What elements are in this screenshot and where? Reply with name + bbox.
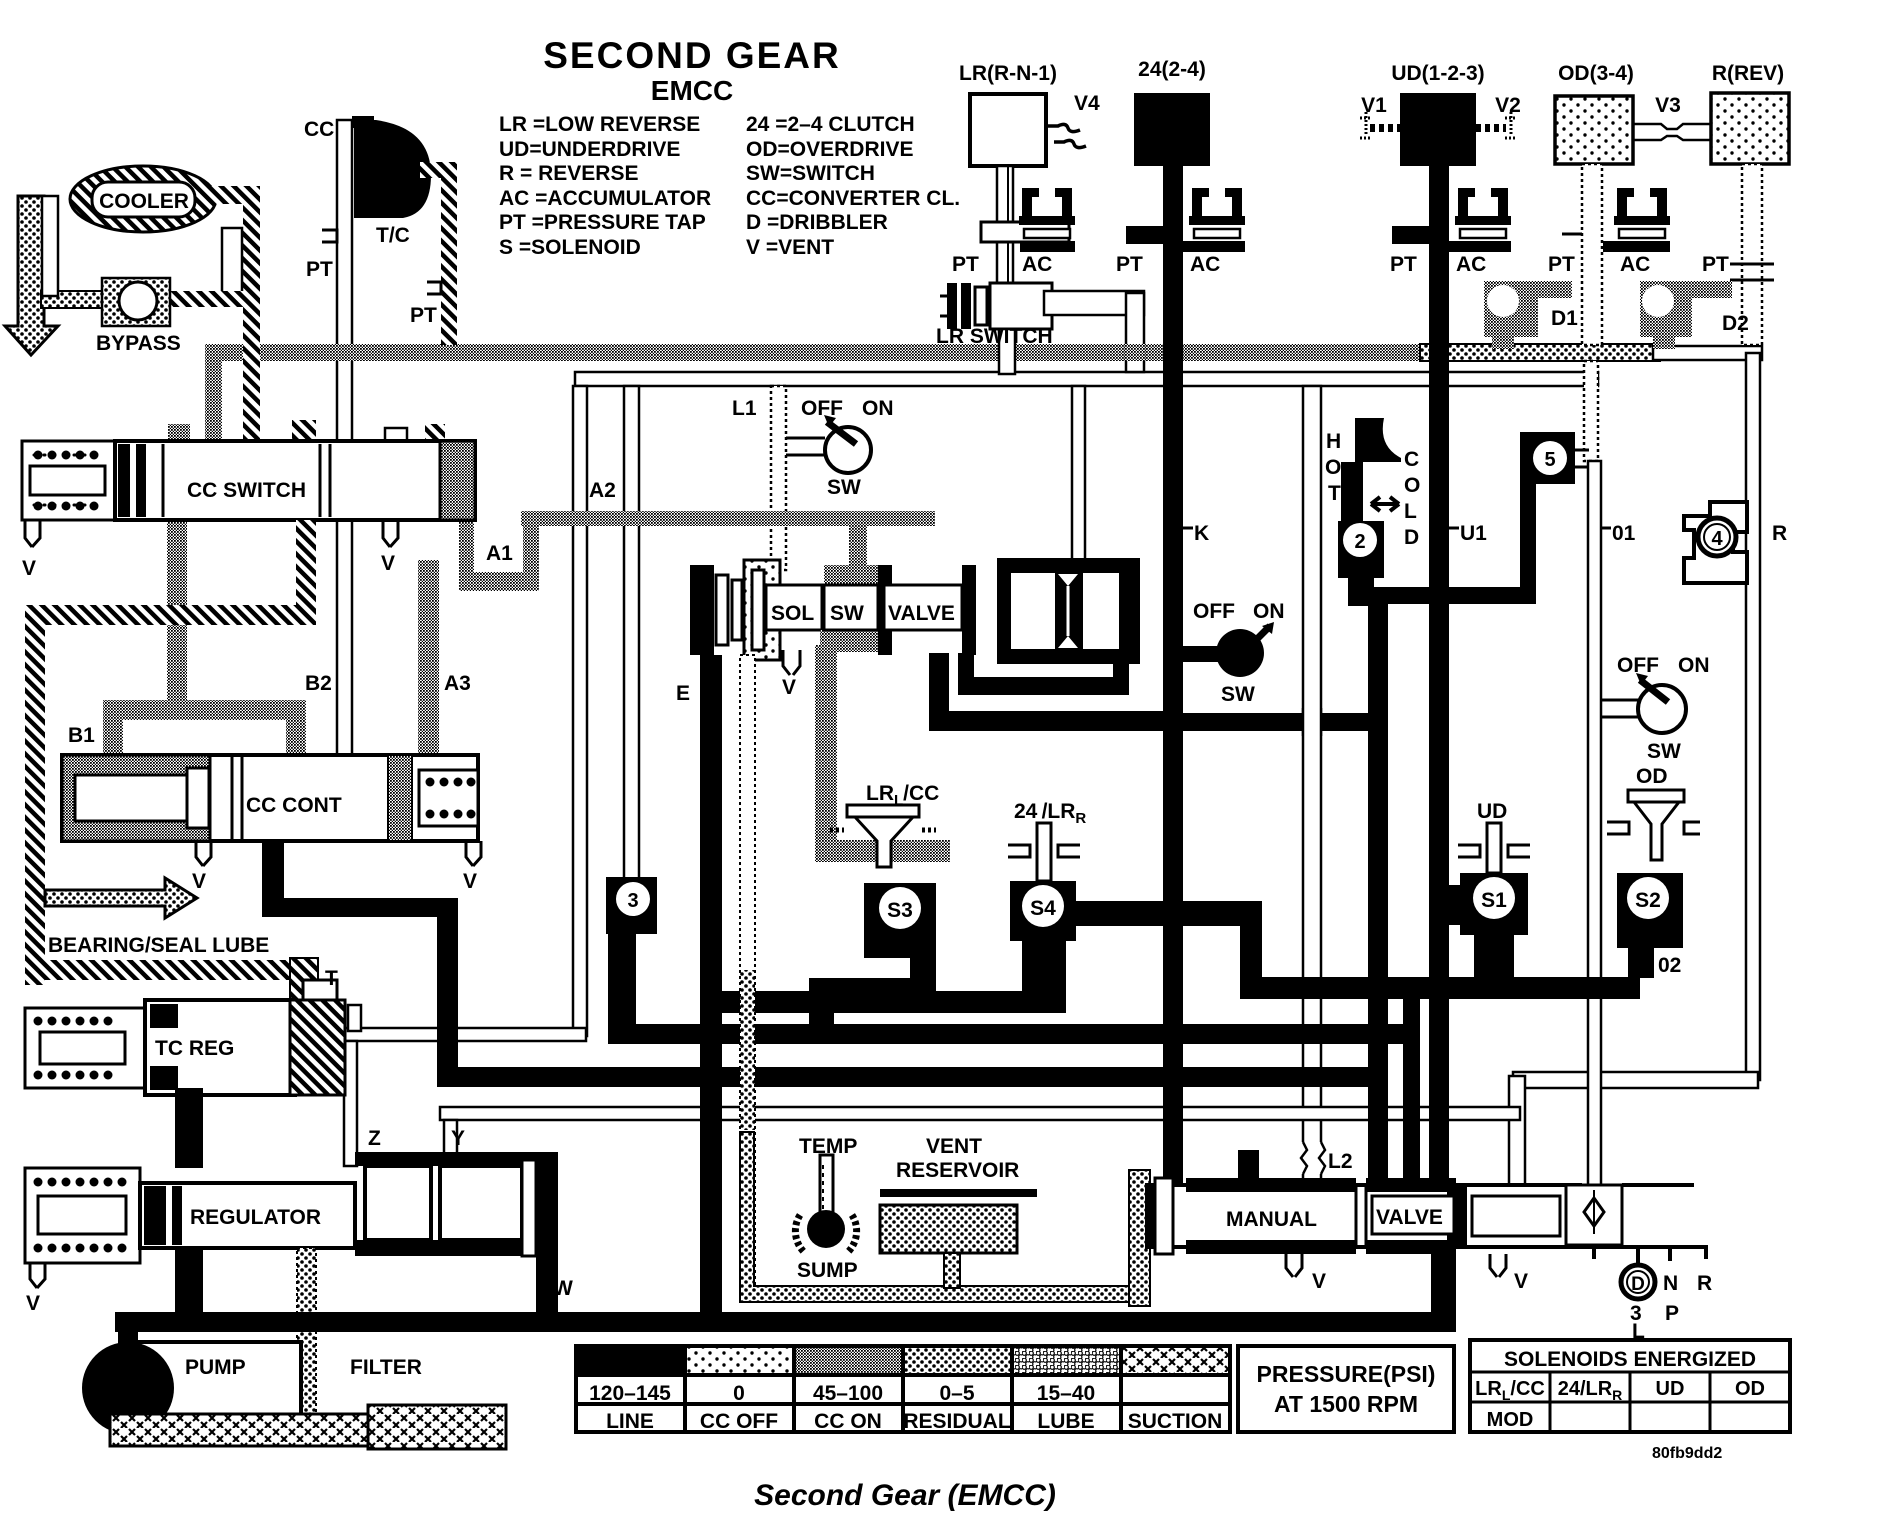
svg-text:R: R	[1697, 1272, 1712, 1295]
pressure tap tick (OD)	[1562, 233, 1582, 236]
vent V (CC SWITCH mid)	[383, 520, 398, 547]
accumulator UD(1-2-3)	[1400, 93, 1476, 166]
wire A3 gray vertical to CC CONT	[418, 560, 439, 756]
wire 02 return white channel vertical	[1509, 1076, 1525, 1185]
wire 01 white channel vertical	[1588, 461, 1601, 1185]
svg-text:PT =PRESSURE TAP: PT =PRESSURE TAP	[499, 211, 706, 234]
svg-text:D: D	[1631, 1274, 1645, 1295]
svg-text:MOD: MOD	[1487, 1409, 1534, 1431]
wire gray vertical CC SWITCH to B1	[167, 520, 187, 716]
CC channel top cap	[352, 116, 374, 128]
vent V (manual valve right)	[1490, 1254, 1506, 1277]
svg-text:OFF: OFF	[1193, 600, 1235, 623]
svg-text:CC=CONVERTER CL.: CC=CONVERTER CL.	[746, 187, 960, 210]
svg-text:V: V	[22, 557, 36, 580]
svg-text:LR =LOW REVERSE: LR =LOW REVERSE	[499, 113, 700, 136]
svg-text:Second Gear (EMCC): Second Gear (EMCC)	[754, 1479, 1056, 1512]
svg-text:R(REV): R(REV)	[1712, 62, 1784, 85]
wire K white channel vertical (right of VALVE)	[1072, 386, 1085, 564]
switch SW middle (on 24 line)	[1183, 600, 1285, 706]
wire A1 gray riser to A2	[523, 511, 539, 591]
svg-text:S =SOLENOID: S =SOLENOID	[499, 236, 641, 259]
valve REGULATOR spring box	[25, 1168, 140, 1263]
wire W down stub	[536, 1256, 558, 1314]
node circle 5	[1520, 432, 1589, 484]
svg-text:SUCTION: SUCTION	[1128, 1410, 1223, 1433]
vent V4 squiggle	[1046, 124, 1086, 147]
svg-text:PT: PT	[410, 304, 437, 327]
solenoid OD filter funnel	[1607, 790, 1700, 860]
lube arrow down (cooler return)	[5, 196, 58, 355]
svg-text:PT: PT	[306, 258, 333, 281]
wire B2 white channel vertical	[337, 520, 352, 756]
valve solenoid switch valve (SOL SW VALVE)	[690, 560, 976, 660]
svg-text:OD(3-4): OD(3-4)	[1558, 62, 1634, 85]
svg-text:CC SWITCH: CC SWITCH	[187, 479, 306, 502]
svg-text:80fb9dd2: 80fb9dd2	[1652, 1445, 1722, 1462]
svg-text:PT: PT	[952, 253, 979, 276]
svg-text:45–100: 45–100	[813, 1382, 883, 1405]
wire row B black	[608, 959, 636, 1044]
suction line crosshatch	[110, 1414, 370, 1446]
svg-text:CC OFF: CC OFF	[700, 1410, 778, 1433]
svg-text:S1: S1	[1481, 889, 1507, 912]
svg-text:V: V	[381, 552, 395, 575]
svg-text:W: W	[553, 1277, 573, 1300]
CC SWITCH top collar stubs	[168, 424, 190, 441]
svg-text:R: R	[1772, 522, 1787, 545]
pressure psi box	[1238, 1346, 1454, 1432]
svg-text:V: V	[782, 676, 796, 699]
accumulator LR(R-N-1)	[970, 94, 1046, 166]
table grid lines	[576, 1346, 1230, 1432]
wire hatched left wall vertical	[25, 605, 45, 985]
svg-text:LUBE: LUBE	[1037, 1410, 1094, 1433]
svg-text:O: O	[1325, 456, 1341, 479]
svg-text:LR SWITCH: LR SWITCH	[936, 325, 1053, 348]
svg-text:OD: OD	[1735, 1378, 1765, 1400]
svg-text:V4: V4	[1074, 92, 1100, 115]
pressure tap tick (CC)	[322, 230, 337, 242]
wire white channel x575 vertical	[573, 386, 587, 1036]
svg-text:B2: B2	[305, 672, 332, 695]
svg-text:5: 5	[1544, 449, 1555, 471]
svg-text:FILTER: FILTER	[350, 1356, 422, 1379]
wire R stem dotted channel	[1742, 164, 1762, 345]
tee connector T	[290, 958, 337, 1006]
valve CC SWITCH spring box	[22, 441, 115, 520]
svg-text:V: V	[1514, 1270, 1528, 1293]
svg-text:L2: L2	[1328, 1150, 1353, 1173]
solenoid S3 filter funnel	[830, 805, 936, 867]
svg-text:SW: SW	[830, 602, 864, 625]
wire row C black	[437, 917, 458, 1087]
wire S1/S2 bottom row black	[1257, 977, 1640, 999]
vent V (CC CONT right)	[466, 841, 481, 866]
wire hatched vertical cooler to CC SWITCH	[243, 186, 260, 442]
solenoid S2	[1617, 873, 1683, 978]
regulator right section	[355, 1152, 558, 1256]
valve REGULATOR body	[140, 1183, 355, 1248]
swatch LINE	[576, 1346, 685, 1375]
svg-text:VALVE: VALVE	[888, 602, 955, 625]
wire 24 main line vertical	[1163, 166, 1183, 1192]
svg-text:OD=OVERDRIVE: OD=OVERDRIVE	[746, 138, 913, 161]
svg-text:SOL: SOL	[771, 602, 814, 625]
svg-text:SW: SW	[1221, 683, 1255, 706]
wire R top white channel	[1653, 346, 1762, 360]
accumulator 24(2-4)	[1134, 93, 1210, 166]
wire OD stem dotted channel	[1582, 164, 1602, 345]
svg-text:R = REVERSE: R = REVERSE	[499, 162, 638, 185]
wire cooler right channel down	[222, 228, 242, 294]
wire thermal riser black	[1368, 604, 1388, 1185]
wire residual dotted vertical to sump	[740, 655, 755, 1300]
LR switch assembly	[940, 283, 1052, 329]
svg-text:UD=UNDERDRIVE: UD=UNDERDRIVE	[499, 138, 680, 161]
svg-text:LINE: LINE	[606, 1410, 654, 1433]
svg-text:A1: A1	[486, 542, 513, 565]
wire CC white channel from top	[337, 120, 352, 442]
wire L2 white channel vertical	[1303, 386, 1321, 1185]
vent V3 channel between OD and R	[1633, 124, 1711, 140]
thermal valve HOT/COLD	[1341, 418, 1401, 522]
wire LR switch to channel	[999, 329, 1015, 374]
valve CC regulator plug (right of SOL valve)	[997, 558, 1140, 664]
svg-text:AC: AC	[1620, 253, 1650, 276]
pump supply line black	[115, 1312, 1456, 1332]
wire dotted bypass line left	[41, 291, 136, 308]
wire UD main line vertical	[1429, 166, 1449, 1192]
valve CC CONT	[62, 755, 478, 841]
wire residual dotted vertical to circle 5	[1584, 361, 1598, 461]
wire white channel T-to-jog vertical	[348, 1005, 361, 1031]
wire v1403 black to manual valve	[1403, 977, 1420, 1185]
svg-text:AC =ACCUMULATOR: AC =ACCUMULATOR	[499, 187, 711, 210]
svg-text:N: N	[1663, 1272, 1678, 1295]
pump	[82, 1325, 301, 1434]
wire S3 output black	[910, 958, 936, 1002]
solenoids energized table	[1470, 1340, 1790, 1432]
svg-text:UD: UD	[1656, 1378, 1685, 1400]
manual valve right spool	[1472, 1196, 1560, 1236]
patch residual dotted over rows	[740, 970, 755, 1130]
wire B1 gray horizontal	[103, 700, 306, 720]
svg-text:PT: PT	[1702, 253, 1729, 276]
svg-text:D: D	[1404, 526, 1419, 549]
svg-text:VENT: VENT	[926, 1135, 982, 1158]
vent reservoir tank	[880, 1189, 1037, 1288]
wire dotted regulator to suction	[297, 1248, 316, 1418]
svg-text:V =VENT: V =VENT	[746, 236, 834, 259]
svg-text:K: K	[1194, 522, 1209, 545]
wire white channel below main line	[575, 372, 1598, 386]
accumulator cap flange (LR)	[981, 222, 1069, 242]
accumulator piston AC (LR)	[1019, 188, 1075, 252]
svg-text:SW: SW	[1647, 740, 1681, 763]
legend abbreviation text column 2	[746, 113, 960, 259]
svg-text:0–5: 0–5	[939, 1382, 974, 1405]
svg-text:PT: PT	[1390, 253, 1417, 276]
patch L2 white channel over black	[1303, 708, 1321, 736]
switch SW (01 line)	[1601, 654, 1710, 763]
wire hatched vertical T/C down to main line	[441, 162, 457, 345]
svg-text:CC CONT: CC CONT	[246, 794, 342, 817]
svg-text:V2: V2	[1495, 94, 1521, 117]
svg-text:V: V	[463, 870, 477, 893]
svg-text:S4: S4	[1030, 897, 1056, 920]
svg-text:V3: V3	[1655, 94, 1681, 117]
torque converter T/C black blob	[356, 120, 431, 218]
manual valve bottom comb with positions	[1456, 1247, 1706, 1269]
solenoid S4	[1010, 881, 1076, 1013]
wire LR switch output channel	[1044, 291, 1144, 315]
svg-text:SW: SW	[827, 476, 861, 499]
solenoid S1	[1460, 873, 1528, 979]
svg-text:TEMP: TEMP	[799, 1135, 857, 1158]
cooler oval	[70, 166, 216, 232]
wire A2 gray elbow down to SOL	[849, 519, 867, 590]
svg-text:OD: OD	[1636, 765, 1668, 788]
svg-text:U1: U1	[1460, 522, 1487, 545]
wire row A black	[722, 991, 1055, 1013]
vent V (manual valve left)	[1286, 1254, 1302, 1277]
svg-text:D =DRIBBLER: D =DRIBBLER	[746, 211, 888, 234]
wire black 24-line to thermal riser	[1183, 713, 1388, 731]
svg-text:ON: ON	[1253, 600, 1285, 623]
svg-text:V: V	[26, 1292, 40, 1315]
svg-text:UD: UD	[1477, 800, 1507, 823]
wire black U-line under plug valve	[958, 653, 1129, 695]
swatch RESIDUAL	[903, 1346, 1012, 1375]
svg-text:BYPASS: BYPASS	[96, 332, 181, 355]
svg-text:A2: A2	[589, 479, 616, 502]
svg-text:H: H	[1326, 430, 1341, 453]
wire S1 feed elbow black	[1449, 885, 1462, 925]
wire B1 gray elbows down to CC CONT	[103, 712, 123, 760]
pressure switch circle 4	[1684, 502, 1747, 583]
svg-text:02: 02	[1658, 954, 1681, 977]
wire A1 gray horizontal jog	[459, 572, 539, 591]
svg-text:0: 0	[733, 1382, 745, 1405]
wire gray vertical main line to CC SWITCH	[205, 357, 222, 445]
svg-text:Y: Y	[451, 1127, 465, 1150]
node circle 2	[1338, 521, 1384, 578]
patch L2 label gap	[1300, 1142, 1324, 1174]
svg-text:120–145: 120–145	[589, 1382, 671, 1405]
svg-text:LRL/CC: LRL/CC	[866, 782, 939, 809]
svg-text:ON: ON	[1678, 654, 1710, 677]
svg-text:24 =2–4 CLUTCH: 24 =2–4 CLUTCH	[746, 113, 915, 136]
svg-text:01: 01	[1612, 522, 1636, 545]
svg-text:TC REG: TC REG	[155, 1037, 234, 1060]
svg-text:24(2-4): 24(2-4)	[1138, 58, 1206, 81]
svg-text:L1: L1	[732, 397, 757, 420]
wire main CC-ON line horizontal	[205, 344, 1420, 361]
svg-text:MANUAL: MANUAL	[1226, 1208, 1317, 1231]
svg-text:RESERVOIR: RESERVOIR	[896, 1159, 1019, 1182]
svg-text:BEARING/SEAL LUBE: BEARING/SEAL LUBE	[48, 934, 269, 957]
vent V (CC CONT left)	[196, 841, 211, 866]
patch A2 over channels	[566, 511, 592, 526]
svg-text:P: P	[1665, 1302, 1679, 1325]
svg-text:D1: D1	[1551, 307, 1578, 330]
svg-text:S3: S3	[887, 899, 913, 922]
wire white channel x625 vertical to circle 3	[624, 386, 639, 879]
wire 02 return white channel horizontal	[1513, 1072, 1758, 1088]
accumulator piston AC (OD)	[1603, 188, 1670, 252]
svg-text:D2: D2	[1722, 312, 1749, 335]
svg-text:4: 4	[1711, 528, 1723, 550]
bypass valve	[102, 278, 170, 326]
dribbler D2	[1640, 281, 1732, 349]
wire row D white channel	[440, 1107, 1520, 1120]
svg-text:O: O	[1404, 474, 1420, 497]
check valve at right of manual valve	[1566, 1185, 1622, 1245]
accumulator piston AC (24)	[1181, 188, 1245, 252]
svg-text:L: L	[1404, 500, 1417, 523]
svg-text:AT 1500 RPM: AT 1500 RPM	[1274, 1391, 1418, 1417]
accumulator piston AC (UD)	[1447, 188, 1511, 252]
wire TC REG output black	[175, 1088, 203, 1168]
solenoid S4 stem	[1008, 823, 1080, 881]
svg-text:C: C	[1404, 448, 1419, 471]
svg-text:Z: Z	[368, 1127, 381, 1150]
wire hatched elbow T/C top	[420, 162, 457, 178]
wire cooler left down channel	[42, 196, 58, 296]
svg-text:EMCC: EMCC	[651, 75, 733, 106]
svg-text:V: V	[1312, 1270, 1326, 1293]
manual valve return vertical	[1431, 1250, 1456, 1332]
dribbler D1	[1484, 281, 1572, 349]
svg-text:CC ON: CC ON	[814, 1410, 882, 1433]
swatch CC OFF	[685, 1346, 794, 1375]
svg-text:B1: B1	[68, 724, 95, 747]
wire A2 gray line horizontal	[521, 511, 935, 526]
svg-text:COOLER: COOLER	[99, 190, 189, 213]
svg-text:OFF: OFF	[801, 397, 843, 420]
swatch CC ON	[794, 1346, 903, 1375]
bearing/seal lube arrow	[45, 878, 197, 918]
svg-text:AC: AC	[1022, 253, 1052, 276]
svg-text:SUMP: SUMP	[797, 1259, 858, 1282]
wire S4 right path black	[1076, 901, 1391, 999]
pressure tap tee (24)	[1126, 226, 1163, 244]
svg-text:AC: AC	[1456, 253, 1486, 276]
vent V (REGULATOR)	[30, 1263, 45, 1288]
pressure tap tee (UD)	[1392, 226, 1429, 244]
svg-text:15–40: 15–40	[1037, 1382, 1095, 1405]
wire cooler right hatched line	[205, 186, 259, 204]
legend abbreviation text column 1	[499, 113, 711, 259]
connector flange on R stem	[1730, 264, 1774, 280]
wire thin line right of check valve	[1622, 1183, 1694, 1187]
svg-text:VALVE: VALVE	[1376, 1206, 1443, 1229]
sump container dotted walls	[740, 1132, 1150, 1302]
svg-text:E: E	[676, 682, 690, 705]
pressure legend table	[576, 1346, 1230, 1432]
vent V (CC SWITCH left)	[25, 520, 40, 547]
svg-text:3: 3	[627, 890, 638, 912]
solenoid UD filter	[1458, 823, 1530, 873]
wire L1 dotted vertical to SOL	[771, 386, 786, 570]
svg-text:CC: CC	[304, 118, 334, 141]
wire white channel Y vertical	[444, 1120, 457, 1166]
valve CC SWITCH body	[115, 441, 475, 520]
svg-text:AC: AC	[1190, 253, 1220, 276]
svg-text:PT: PT	[1116, 253, 1143, 276]
svg-text:PT: PT	[1548, 253, 1575, 276]
svg-text:RESIDUAL: RESIDUAL	[903, 1410, 1011, 1433]
accumulator OD(3-4)	[1555, 96, 1633, 164]
wire white channel jog y1031	[344, 1028, 586, 1041]
svg-text:T: T	[1328, 482, 1341, 505]
svg-text:REGULATOR: REGULATOR	[190, 1206, 321, 1229]
svg-text:SECOND GEAR: SECOND GEAR	[543, 35, 840, 76]
manual valve body	[1147, 1178, 1580, 1254]
wire A1 gray end-cap vertical	[459, 520, 474, 576]
shifter position D circle	[1621, 1265, 1655, 1299]
wire black wide line valve to 24-line	[929, 653, 1163, 731]
svg-text:LR(R-N-1): LR(R-N-1)	[959, 62, 1057, 85]
wire hatched elbow CC SWITCH to left wall	[296, 520, 316, 625]
svg-text:T/C: T/C	[376, 224, 410, 247]
wire R line white channel vertical	[1746, 353, 1760, 1080]
svg-text:PUMP: PUMP	[185, 1356, 246, 1379]
vent V (SOL valve)	[783, 650, 800, 675]
swatch SUCTION	[1121, 1346, 1230, 1375]
wire white channel Z vertical	[344, 1041, 357, 1166]
svg-text:LRL/CC: LRL/CC	[1475, 1378, 1545, 1403]
wire manual valve top stub	[1238, 1150, 1259, 1192]
swatch LUBE	[1012, 1346, 1121, 1375]
wire LR stem (white channel)	[997, 166, 1013, 283]
svg-text:SOLENOIDS ENERGIZED: SOLENOIDS ENERGIZED	[1504, 1348, 1756, 1371]
patch main line over CC channel	[332, 344, 358, 361]
svg-text:T: T	[325, 967, 338, 990]
svg-text:UD(1-2-3): UD(1-2-3)	[1391, 62, 1484, 85]
wire hatched bypass to vertical	[168, 291, 244, 307]
svg-text:S2: S2	[1635, 889, 1661, 912]
filter crosshatch box	[368, 1405, 506, 1449]
svg-text:2: 2	[1354, 531, 1365, 553]
valve TC REG	[25, 1000, 345, 1095]
wire thermal zigzag to circle 5	[1348, 578, 1374, 606]
wire CC CONT output black	[262, 841, 284, 917]
thermometer TEMP	[795, 1155, 856, 1253]
wire E-line vertical black	[700, 655, 722, 1332]
svg-text:SW=SWITCH: SW=SWITCH	[746, 162, 875, 185]
wire gray elbow SOL to S3 funnel	[815, 645, 916, 862]
svg-text:A3: A3	[444, 672, 471, 695]
solenoid S3	[864, 883, 936, 958]
node circle 3	[606, 877, 657, 959]
wire regulator to pump line black	[175, 1248, 203, 1318]
pressure tap tick (T/C)	[427, 282, 441, 294]
switch SW (upper left of SOL valve)	[786, 397, 894, 499]
svg-text:V: V	[192, 870, 206, 893]
wire hatched lube line to TC REG	[25, 960, 315, 980]
svg-text:ON: ON	[862, 397, 894, 420]
svg-text:PRESSURE(PSI): PRESSURE(PSI)	[1257, 1361, 1436, 1387]
